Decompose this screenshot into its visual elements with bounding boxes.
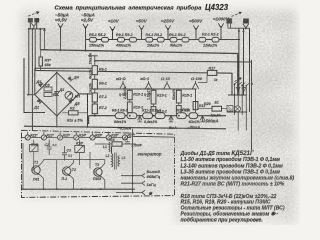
label 5mA [167, 125, 178, 130]
label ~50uA tap2 [81, 13, 95, 23]
resistor R5-2 [89, 37, 109, 47]
label kOhm range 1 [116, 76, 126, 81]
capacitor C4 [124, 137, 143, 148]
label Ohm range 4 [190, 76, 203, 81]
wire terminal bar right [228, 23, 250, 28]
probe tap ~1000V [218, 23, 223, 28]
resistor R10-2 [127, 102, 143, 113]
resistor R2 [62, 107, 88, 123]
wire lower bus [24, 126, 226, 129]
resistor R11-2 [144, 113, 165, 124]
resistor R6-1v [88, 53, 107, 116]
probe tap ~50uA [58, 23, 63, 28]
wire tap5 down [167, 30, 169, 40]
diode D5 [68, 98, 80, 106]
resistor R12-2 [151, 107, 167, 116]
junction inner bus [43, 188, 102, 190]
transformer core [115, 153, 117, 170]
tap Ohm 3 [164, 81, 170, 89]
wire left vertical 2 [31, 29, 33, 131]
junction bridge [27, 72, 88, 117]
capacitor C2 [45, 140, 58, 155]
output arrow 3 [116, 190, 145, 194]
wire left vertical 4 [39, 29, 41, 50]
trimmer R22 [41, 132, 54, 140]
resistor R4-2 [147, 37, 164, 47]
resistor R13-1 [147, 87, 167, 115]
wire right vertical a [238, 28, 240, 95]
wire bus B [95, 61, 252, 62]
wire bridge left [28, 94, 35, 96]
resistor R15-1 [172, 88, 192, 115]
junction dots right top [238, 30, 253, 85]
transformer L3 [118, 156, 126, 167]
transformer L2 [106, 154, 113, 167]
wire output vertical [133, 129, 175, 193]
wire right vertical b [243, 28, 245, 95]
resistor R3 [39, 50, 52, 71]
wire tap6 down [195, 30, 197, 40]
terminal square TR0b [230, 19, 232, 23]
probe tap ~500V [193, 25, 198, 30]
wire shunt bus [89, 116, 226, 124]
resistor R4-1 [146, 33, 163, 42]
transistor T1 [32, 160, 44, 190]
wire tap3 down [112, 31, 114, 40]
tap kOhm 2 [145, 81, 151, 89]
label ~50V [136, 19, 148, 24]
probe tap left [31, 23, 36, 29]
label ~50uA tap1 [55, 13, 69, 23]
junction chain [94, 60, 96, 117]
trimmer R23 [58, 132, 71, 140]
wire right vertical c [249, 28, 251, 112]
trimmer R26 [106, 132, 119, 140]
resistor R1 [44, 93, 58, 98]
wire L2 top [111, 147, 113, 154]
label 50mA [188, 124, 201, 129]
terminal square TR1 [244, 19, 246, 23]
resistor R6-2 [170, 37, 189, 47]
junction outputs [132, 175, 134, 194]
label Ohm range 3 [160, 76, 171, 81]
diode D3 [55, 73, 65, 116]
switch B1 adjust arrow [235, 78, 242, 82]
label ~1000V [213, 17, 230, 22]
wire left vertical 1 [29, 22, 31, 95]
label ~250V [161, 19, 175, 24]
trimmer R25 [90, 132, 103, 140]
probe tap ~250V [165, 25, 170, 30]
tap 5mA [169, 116, 173, 122]
wire right of bridge [87, 94, 89, 127]
terminal square TR0a [227, 19, 229, 23]
trimmer R24 [74, 132, 87, 140]
resistor R10-1 [123, 86, 143, 115]
wire tap7 down [220, 28, 222, 40]
wire bridge bottom [56, 116, 58, 127]
wire cluster verticals [235, 84, 247, 130]
terminal square TR2 [246, 19, 248, 23]
resistor R17 [198, 67, 218, 83]
resistor R9-1 [116, 33, 133, 42]
resistor R14-1 [177, 109, 190, 119]
wire bus D [35, 71, 232, 96]
diode D6 [236, 88, 240, 91]
wire terminal bar left [29, 28, 45, 30]
wire tap2 down [85, 29, 87, 51]
diode D2 [33, 99, 42, 110]
junction lower bus [56, 126, 89, 128]
probe tap ~10V [110, 26, 115, 31]
lamp L [235, 106, 241, 112]
wire cluster h1 [228, 94, 246, 96]
resistor R2-1 [199, 33, 219, 43]
resistor R20 [198, 101, 230, 124]
transistor T2 [62, 160, 77, 190]
tap Ohm 4 [192, 81, 198, 116]
resistor R7-1 [89, 83, 107, 102]
wire bridge right [79, 93, 95, 95]
label kOhm range 2 [140, 76, 149, 81]
trimmer R18 [75, 140, 85, 159]
tap 0.5mA [138, 116, 142, 122]
junction dots left [28, 28, 46, 30]
junction shunt [129, 115, 180, 117]
resistor R2-2 [203, 37, 219, 47]
terminal square TL2 [35, 19, 39, 22]
bridge diamond [35, 73, 79, 116]
capacitor C3 [62, 146, 73, 161]
wire far right vertical [251, 60, 253, 150]
wire ohm bus [95, 88, 197, 90]
terminal square TL1 [28, 19, 32, 22]
junction dots bus A [60, 49, 87, 52]
trimmer R21 [25, 132, 38, 140]
probe tap right [243, 24, 249, 30]
tap 50mA [200, 116, 204, 122]
switch mark top-right [232, 12, 242, 16]
meter IP [65, 92, 80, 100]
wire multiplier chain [86, 39, 241, 41]
resistor R15-2 [176, 106, 189, 116]
label 0.5mA [118, 126, 132, 131]
output arrow 2 [121, 181, 145, 185]
diode D1 [36, 79, 44, 87]
wire inner verticals [23, 143, 105, 189]
label output [146, 169, 161, 196]
title [55, 3, 229, 12]
resistor R6-2v [89, 69, 107, 89]
output arrow 1 [121, 174, 145, 178]
label ~500V [189, 19, 203, 24]
trimmer R27 [122, 132, 135, 140]
wire left vertical 5 [43, 29, 46, 50]
capacitor C5 [44, 84, 52, 92]
resistor R8-2 [114, 113, 137, 124]
label ~10V [108, 19, 120, 24]
resistor R16 [95, 138, 136, 146]
wire inner bus [22, 188, 135, 190]
wire cluster h2 [227, 111, 247, 113]
resistor R11-1 [142, 109, 161, 119]
wire stub left [24, 58, 45, 113]
switch B1 contacts [234, 82, 250, 87]
wire tap4 down [141, 30, 143, 40]
resistor R5-1 [89, 33, 106, 42]
junction cluster [237, 94, 247, 113]
transistor T3 [93, 160, 105, 190]
wire left vertical 3 [35, 22, 37, 71]
capacitor C1 [227, 106, 233, 112]
probe tap2 [83, 24, 88, 29]
resistor R8-1 [112, 109, 128, 119]
notes block [180, 150, 295, 223]
generator box [22, 130, 175, 197]
diode D7 [242, 88, 246, 91]
switch mark top-left [28, 12, 39, 17]
resistor R6-1 [169, 33, 186, 42]
resistor R14-2 [189, 113, 200, 124]
wire trimmer row [22, 137, 131, 139]
wire bridge top [35, 68, 97, 94]
wire bus A [40, 50, 238, 95]
inductor L1 [103, 142, 110, 152]
resistor R9-2 [115, 37, 137, 47]
trimmer R19 [30, 140, 39, 159]
wire tap1 down [60, 28, 62, 50]
probe tap ~50V [139, 25, 144, 30]
resistor R7-2 [92, 104, 107, 114]
label generator [138, 152, 162, 157]
tap kOhm 1 [120, 81, 126, 89]
diode D4 [68, 75, 80, 82]
